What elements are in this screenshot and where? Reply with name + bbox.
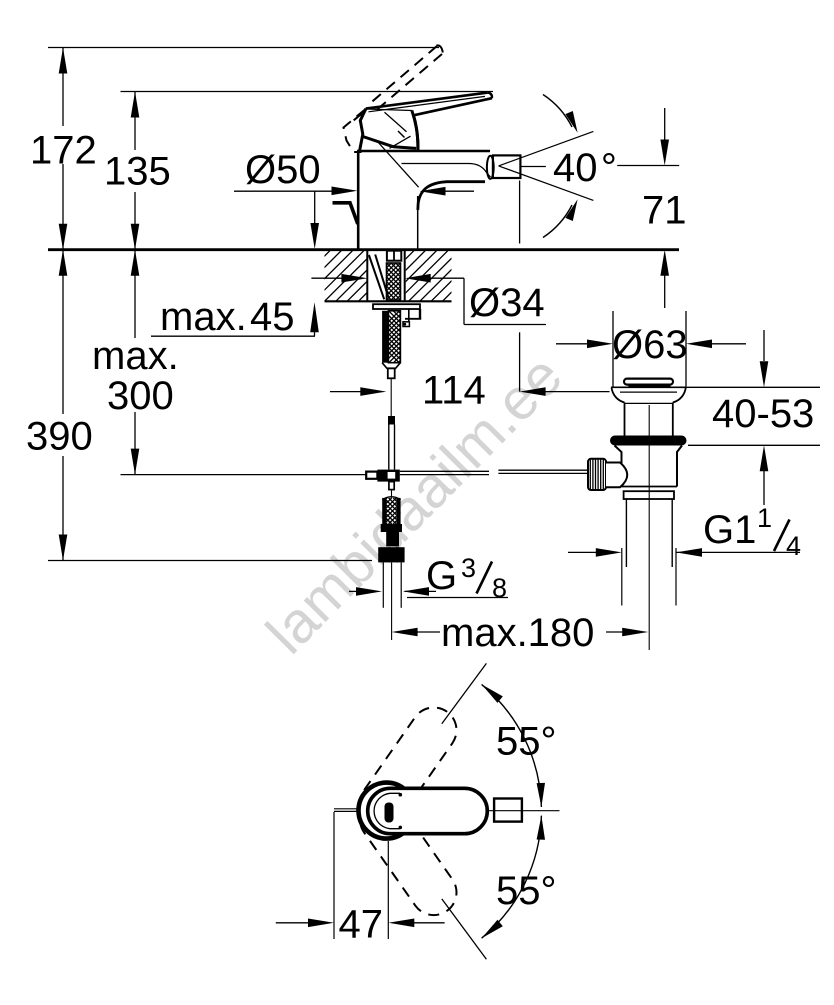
spout outlet extension line — [519, 181, 521, 244]
G1-1/4 dimension — [568, 551, 597, 553]
svg-text:55°: 55° — [496, 869, 557, 913]
top view ghost handles dashed — [351, 699, 465, 835]
pull rod hairline — [390, 378, 392, 421]
svg-text:max. 45: max. 45 — [160, 295, 295, 339]
40 degree arcs — [543, 95, 572, 128]
hose braid — [382, 498, 386, 524]
40 degree spray lines — [499, 131, 594, 166]
svg-text:8: 8 — [492, 573, 507, 603]
lever base — [360, 109, 366, 151]
lever neck — [414, 115, 418, 151]
55 degree arc upper — [482, 684, 542, 807]
hose ferrule — [381, 524, 402, 532]
svg-text:55°: 55° — [496, 720, 557, 764]
spout end ellipse — [487, 156, 494, 179]
svg-text:G1: G1 — [703, 508, 756, 552]
waste valve top button — [624, 379, 673, 385]
tube below stud — [388, 368, 395, 378]
counter hole edges — [366, 250, 368, 302]
counter hatching left band — [268, 251, 443, 301]
mounting washer — [373, 304, 420, 309]
counter top line — [48, 248, 679, 251]
svg-text:40 °: 40 ° — [553, 146, 617, 190]
max45 label leader — [151, 335, 315, 337]
svg-text:114: 114 — [422, 369, 486, 413]
svg-text:40-53: 40-53 — [712, 392, 814, 436]
hose collet — [386, 532, 399, 546]
svg-text:max.: max. — [92, 334, 179, 378]
dimension line 172 top reference — [48, 47, 439, 49]
arrowheads — [59, 48, 68, 74]
svg-text:Ø50: Ø50 — [245, 148, 321, 192]
svg-text:3: 3 — [461, 553, 476, 583]
waste body — [615, 446, 622, 487]
rod collar — [388, 416, 395, 425]
dimension line max300 bottom reference — [121, 474, 367, 476]
linkage rod second piece — [498, 469, 588, 471]
top view aerator — [494, 799, 522, 822]
pipe below nut — [382, 562, 384, 607]
max180 dimension — [414, 631, 440, 633]
spout underside — [418, 182, 485, 210]
O50 label leader — [234, 190, 334, 192]
47 dimension — [333, 812, 335, 939]
svg-text:G: G — [426, 554, 457, 598]
pop-up rod knob — [333, 203, 358, 224]
svg-text:Ø63: Ø63 — [612, 323, 688, 367]
55 degree arc lower — [482, 816, 542, 939]
raised lever base dashed — [344, 110, 366, 153]
linkage horizontal rod right — [400, 470, 489, 472]
waste knurled knob — [588, 459, 606, 490]
71 dimension — [617, 165, 679, 167]
waste tailpipe — [625, 499, 627, 567]
raised lever shaft dashed — [437, 45, 443, 52]
top view escutcheon — [359, 783, 415, 839]
spout inner line — [402, 164, 491, 178]
knob connector — [606, 463, 627, 488]
dim vertical 135/max300 — [134, 92, 136, 151]
counter slab bottom line — [325, 300, 452, 302]
svg-text:300: 300 — [107, 374, 174, 418]
O34 dimension — [311, 277, 342, 279]
dimension line 390 bottom reference — [48, 560, 372, 562]
clamp stub — [389, 482, 394, 490]
svg-text:390: 390 — [26, 415, 93, 459]
svg-text:1: 1 — [757, 503, 772, 533]
svg-text:71: 71 — [642, 189, 687, 233]
svg-text:max.180: max.180 — [441, 611, 594, 655]
G3/8 dimension — [349, 590, 358, 592]
svg-text:Ø34: Ø34 — [469, 281, 545, 325]
dim vertical 172/390 — [62, 48, 64, 127]
waste bottom ring — [624, 491, 674, 499]
svg-text:135: 135 — [104, 150, 171, 194]
stud bottom chamfer — [382, 363, 400, 369]
shank wedge — [369, 255, 384, 299]
svg-text:47: 47 — [339, 903, 384, 947]
svg-text:172: 172 — [30, 129, 97, 173]
waste upper cylinder — [624, 403, 626, 436]
shank rod top — [387, 251, 401, 261]
shank thread upper — [350, 263, 465, 300]
linkage clamp — [377, 470, 399, 482]
waste flange — [610, 436, 687, 446]
114 dimension — [330, 391, 361, 393]
aerator — [493, 155, 521, 178]
top view handle — [368, 788, 488, 833]
55 degree swing lines — [442, 663, 487, 723]
40-53 dimension — [681, 386, 820, 388]
waste trumpet — [611, 386, 686, 388]
faucet body outline — [357, 151, 360, 250]
dimension line 135 top reference — [121, 91, 494, 93]
waste centerline — [648, 405, 650, 650]
inner diagonal — [377, 141, 419, 187]
svg-text:4: 4 — [786, 531, 801, 561]
handle indicator — [385, 803, 394, 823]
threaded stud — [382, 311, 388, 363]
counter hatching right band — [352, 251, 527, 301]
connection nut G3/8 — [378, 547, 404, 562]
O63 dimension — [556, 343, 588, 345]
pull rod double — [388, 425, 390, 470]
lever blade — [366, 93, 488, 109]
top view rod — [334, 808, 360, 810]
